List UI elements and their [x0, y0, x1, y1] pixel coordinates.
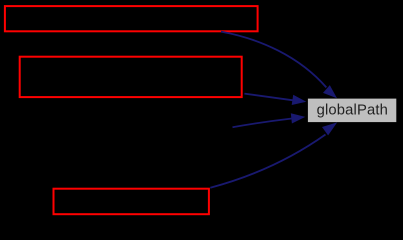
svg-text:globalPath: globalPath	[317, 103, 388, 119]
